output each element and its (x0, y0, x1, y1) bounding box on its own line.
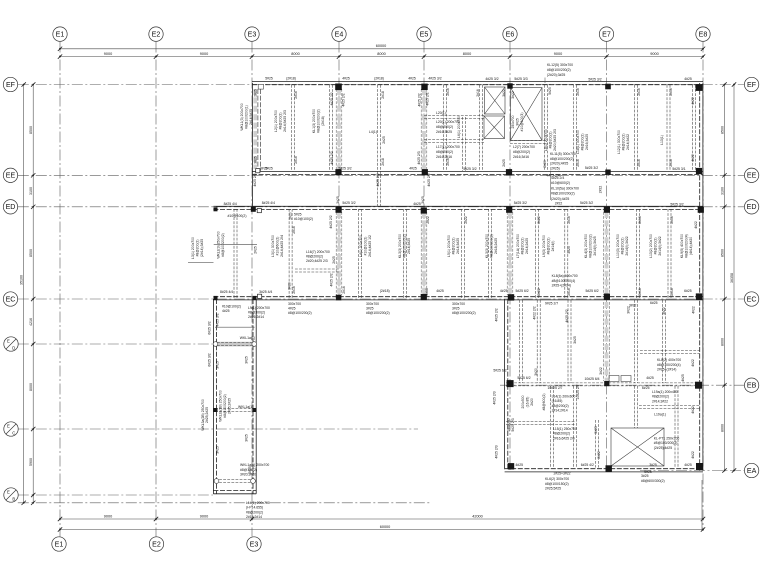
column E4/EF (335, 84, 342, 91)
label KL9(5) (680, 234, 693, 258)
label tiny v l (576, 88, 580, 96)
svg-text:3#25: 3#25 (452, 307, 460, 311)
svg-text:5#25 3/2: 5#25 3/2 (588, 78, 601, 82)
beam top band x636 (635, 85, 638, 172)
label strip L9 (248, 306, 270, 319)
svg-text:2#22: 2#22 (597, 451, 601, 459)
label block v m (534, 368, 538, 376)
label block v h (662, 307, 666, 315)
svg-text:2#18: 2#18 (381, 91, 385, 99)
beam bay E6-E7 y142 (510, 141, 546, 144)
svg-text:E: E (7, 424, 10, 429)
svg-text:KL1(3) 200x700: KL1(3) 200x700 (312, 109, 316, 133)
label tiny v b (294, 91, 298, 99)
notch box top left (258, 84, 263, 89)
grid line E1 (59, 42, 61, 537)
svg-text:#8@200(2): #8@200(2) (436, 125, 453, 129)
svg-text:4#25: 4#25 (342, 77, 350, 81)
column E6/EC (508, 294, 514, 300)
svg-text:EF: EF (747, 81, 757, 89)
svg-text:8#25 4/4: 8#25 4/4 (262, 201, 275, 205)
svg-text:#8@200(2): #8@200(2) (652, 395, 669, 399)
svg-text:2#25: 2#25 (332, 256, 336, 264)
svg-text:4#25 2/2: 4#25 2/2 (427, 173, 431, 186)
svg-text:3#16: 3#16 (425, 288, 429, 296)
svg-text:5900: 5900 (29, 458, 33, 466)
svg-text:4#25: 4#25 (222, 309, 230, 313)
column E8/EC (696, 293, 702, 299)
svg-text:KL10(5a) 300x700: KL10(5a) 300x700 (551, 186, 579, 190)
svg-text:5#25 3/2: 5#25 3/2 (514, 201, 527, 205)
svg-text:250x700: 250x700 (511, 115, 515, 128)
svg-text:5#25: 5#25 (548, 87, 552, 95)
label L16(7) (306, 250, 330, 263)
svg-text:6#25 3/2: 6#25 3/2 (207, 353, 211, 366)
svg-text:2#14;5#25 2/3: 2#14;5#25 2/3 (283, 110, 287, 132)
svg-text:3#22: 3#22 (627, 306, 631, 314)
svg-text:4#25: 4#25 (646, 376, 654, 380)
svg-text:#8@100/200(2): #8@100/200(2) (654, 441, 678, 445)
svg-text:10#25 6/4: 10#25 6/4 (584, 377, 599, 381)
svg-text:2#16: 2#16 (446, 88, 450, 96)
svg-text:8000: 8000 (377, 52, 385, 56)
label L5(1) (447, 235, 460, 257)
svg-text:(2#20);3#25: (2#20);3#25 (547, 73, 565, 77)
beam top band x668 (667, 85, 670, 172)
svg-text:#10@100(2): #10@100(2) (294, 217, 313, 221)
label strip v d (245, 356, 249, 364)
label beam L13(1) (660, 135, 664, 145)
svg-text:L4(1) 300x700: L4(1) 300x700 (359, 235, 363, 257)
beam mid band x638 (637, 209, 640, 298)
svg-text:5#25 3/3: 5#25 3/3 (514, 77, 527, 81)
label tiny v al (670, 216, 674, 224)
svg-text:2#16: 2#16 (669, 159, 673, 167)
label belowEC 3 (452, 302, 476, 315)
dimension line bottom segments (58, 514, 705, 521)
label tiny v c (330, 92, 334, 105)
label block v c (495, 445, 499, 458)
beam bay E5-E6 y141 (424, 140, 484, 143)
svg-text:4#25: 4#25 (436, 289, 444, 293)
strip floor line y327 (215, 326, 255, 328)
column E7/ED (604, 207, 610, 213)
svg-text:#8@100/200(2): #8@100/200(2) (288, 311, 312, 315)
svg-text:KL12(5) 300x700: KL12(5) 300x700 (547, 63, 573, 67)
svg-text:L2(1) 200x700: L2(1) 200x700 (274, 110, 278, 132)
label WKL2a (219, 390, 232, 422)
beam top band x546 (545, 85, 548, 172)
svg-text:2#16: 2#16 (476, 89, 480, 97)
svg-text:E3: E3 (250, 540, 259, 548)
svg-text:E6: E6 (506, 30, 515, 38)
svg-text:(2#18): (2#18) (321, 116, 325, 126)
column strip y410 R (253, 408, 257, 412)
svg-text:4#25: 4#25 (408, 77, 416, 81)
svg-text:KL8(5a) 400x700: KL8(5a) 400x700 (552, 274, 578, 278)
svg-text:E8: E8 (699, 30, 708, 38)
label tiny v i (502, 89, 506, 97)
column E5/EC (421, 294, 427, 300)
svg-text:2#16: 2#16 (637, 159, 641, 167)
svg-text:6#25 4/2: 6#25 4/2 (581, 463, 594, 467)
label WKL2(3) (217, 231, 225, 258)
label WKL1a 481 (240, 463, 269, 477)
grid bubble E1 bottom (52, 537, 66, 551)
svg-text:2#25: 2#25 (254, 246, 258, 254)
svg-text:2#25+3#22: 2#25+3#22 (553, 472, 570, 476)
svg-text:#8@200(2): #8@200(2) (513, 150, 530, 154)
svg-text:KL-PT1 250x700: KL-PT1 250x700 (654, 437, 680, 441)
svg-text:2#14;3#25: 2#14;3#25 (407, 238, 411, 254)
label mid 4#25 22b (329, 273, 333, 286)
beam ED (213, 206, 703, 209)
column E8/EB (695, 382, 702, 389)
column strip/EC L (214, 296, 218, 300)
grid bubble E7 top (599, 27, 613, 41)
svg-text:3#25: 3#25 (421, 196, 425, 204)
svg-text:3#20: 3#20 (287, 282, 291, 290)
label tiny v at (670, 288, 674, 296)
svg-text:5#25 3/2: 5#25 3/2 (463, 167, 476, 171)
column wing/ED (214, 207, 218, 211)
grid bubble EE right (744, 168, 758, 182)
svg-text:4#25: 4#25 (515, 463, 523, 467)
svg-text:WKL2a(2B) 250x700: WKL2a(2B) 250x700 (219, 390, 223, 422)
svg-text:2#22: 2#22 (426, 216, 430, 224)
beam block x636 lower (635, 386, 638, 428)
label 200x500 (521, 395, 534, 408)
svg-text:8500: 8500 (720, 126, 724, 134)
svg-text:ED: ED (747, 203, 757, 211)
label L3(1) (271, 235, 284, 257)
label beam L18(1) (576, 130, 589, 154)
svg-text:2#18: 2#18 (381, 158, 385, 166)
label tiny v p (254, 156, 258, 164)
grid bubble EB right (744, 378, 758, 392)
svg-text:#8@100/200(4): #8@100/200(4) (685, 234, 689, 258)
svg-text:WKL1a(1): WKL1a(1) (238, 405, 253, 409)
label beam L6 (457, 116, 461, 138)
svg-text:#8@200(2): #8@200(2) (621, 237, 625, 254)
svg-text:4#25 2/2: 4#25 2/2 (330, 151, 334, 164)
label KL4(3) (584, 234, 597, 258)
svg-text:5#25 2/3: 5#25 2/3 (511, 418, 515, 431)
line wing y244 (214, 243, 257, 245)
svg-text:2#20: 2#20 (530, 398, 534, 406)
beam mid band x463 (462, 209, 465, 298)
svg-text:L3(1) 300x700: L3(1) 300x700 (271, 235, 275, 257)
label KL8(2) (657, 358, 681, 372)
svg-text:4#25 2/2: 4#25 2/2 (253, 173, 257, 186)
svg-text:8#25 4/4: 8#25 4/4 (224, 202, 237, 206)
svg-text:3#22: 3#22 (599, 367, 603, 375)
beam mid band x490 (489, 209, 492, 298)
svg-text:4#22 2/2: 4#22 2/2 (532, 306, 536, 319)
label KL-PT1 (654, 437, 680, 450)
label beam L8(1) (544, 129, 557, 151)
svg-text:2#14(!);3#22: 2#14(!);3#22 (625, 236, 629, 255)
label tiny v ag (426, 216, 430, 224)
label block v d (532, 306, 536, 319)
dimension line left segments (29, 82, 35, 505)
svg-text:2#20: 2#20 (289, 212, 293, 220)
label block v g (627, 306, 631, 314)
svg-text:EB: EB (747, 382, 757, 390)
grid bubble E3 bottom (247, 537, 261, 551)
grid bubble E6 top (503, 27, 517, 41)
svg-text:(2#25): (2#25) (550, 166, 560, 170)
label mid 3#20 (287, 282, 291, 290)
label tiny v z (691, 154, 695, 162)
label tiny v an (292, 286, 296, 294)
beam EA bottom edge (505, 469, 703, 472)
svg-text:4#25 2/2: 4#25 2/2 (330, 92, 334, 105)
svg-text:2#22: 2#22 (555, 202, 563, 206)
svg-text:10#25 2/7: 10#25 2/7 (576, 384, 580, 399)
svg-text:2#25: 2#25 (502, 159, 506, 167)
svg-text:E2: E2 (152, 30, 161, 38)
svg-text:4#25 3/2: 4#25 3/2 (216, 313, 220, 326)
svg-text:L18(1) 300x700: L18(1) 300x700 (576, 130, 580, 154)
svg-text:6#25: 6#25 (684, 289, 692, 293)
svg-text:L1b(1) 200x700: L1b(1) 200x700 (246, 501, 270, 505)
column E7/EA (606, 465, 612, 471)
svg-text:4#25: 4#25 (684, 463, 692, 467)
grid bubble E/C left (4, 422, 18, 436)
wall E3 left edge (252, 83, 260, 208)
column E5/ED (421, 207, 427, 213)
svg-text:3#25: 3#25 (245, 434, 249, 442)
label belowED 3#20 (294, 212, 313, 221)
beam EE (252, 171, 703, 174)
svg-text:#10@100(2): #10@100(2) (222, 305, 241, 309)
svg-text:KL6(2) 300x700: KL6(2) 300x700 (545, 477, 569, 481)
label 250x700 in X (511, 113, 524, 132)
beam top band x575 (574, 85, 577, 172)
label tiny v a (254, 89, 258, 97)
svg-text:4#25 2/2: 4#25 2/2 (565, 309, 569, 322)
svg-text:ED: ED (6, 203, 16, 211)
label tiny v r (330, 151, 334, 164)
svg-text:8500: 8500 (29, 249, 33, 257)
svg-text:5#25 3/2: 5#25 3/2 (585, 166, 598, 170)
svg-text:2#20;5#25 2/3: 2#20;5#25 2/3 (553, 129, 557, 151)
svg-text:#8@100/200(2): #8@100/200(2) (547, 68, 571, 72)
label tiny v aq (537, 288, 541, 296)
label block v o (597, 451, 601, 459)
svg-text:(2#20);4#25: (2#20);4#25 (550, 162, 568, 166)
label tiny v aj (567, 216, 571, 224)
dimension line left outer (20, 82, 26, 505)
column E3/ED (251, 207, 256, 212)
beam E5 grey top (421, 89, 427, 169)
svg-text:4#25 2/2: 4#25 2/2 (329, 215, 333, 228)
svg-text:5#25 3/2: 5#25 3/2 (670, 203, 683, 207)
grid line EE (18, 174, 745, 176)
beam top band x331 (330, 85, 333, 172)
label block v m4 (681, 374, 685, 382)
stair rect detail 2 (621, 376, 631, 382)
svg-text:4#22: 4#22 (691, 359, 695, 367)
svg-text:4#22: 4#22 (691, 97, 695, 105)
label beam KL1(3) (312, 109, 325, 133)
svg-text:9000: 9000 (554, 52, 562, 56)
svg-text:2#25+(2#14): 2#25+(2#14) (657, 368, 676, 372)
svg-text:4#25 2/3: 4#25 2/3 (493, 391, 497, 404)
svg-text:#8@100/200(2): #8@100/200(2) (366, 311, 390, 315)
label KL12(5) block (547, 63, 573, 77)
svg-text:#8@200(2): #8@200(2) (246, 510, 263, 514)
svg-text:4#25: 4#25 (500, 289, 508, 293)
svg-text:2#16: 2#16 (292, 286, 296, 294)
svg-text:EC: EC (747, 295, 757, 303)
svg-text:2#14;4#25 2/4: 2#14;4#25 2/4 (280, 235, 284, 257)
label KL6(2) (545, 477, 569, 491)
label tiny v ap (425, 288, 429, 296)
label beam L12(1) (617, 130, 630, 154)
label L4(1) mid (359, 235, 372, 257)
label L15 block (553, 427, 577, 440)
svg-text:2#14;2#25: 2#14;2#25 (525, 238, 529, 254)
svg-text:3#20: 3#20 (534, 368, 538, 376)
svg-text:WKL1a(1): WKL1a(1) (240, 336, 255, 340)
svg-text:E5: E5 (420, 30, 429, 38)
label L9(3) (542, 235, 555, 257)
svg-text:3#25: 3#25 (567, 246, 571, 254)
label L13(2) (649, 234, 662, 258)
svg-text:4#22: 4#22 (694, 221, 698, 229)
svg-text:2#14;2#14: 2#14;2#14 (552, 409, 568, 413)
svg-text:2#16;3#16: 2#16;3#16 (513, 155, 529, 159)
label block v n (594, 426, 598, 434)
svg-text:9000: 9000 (650, 52, 658, 56)
svg-text:2#16;3#25: 2#16;3#25 (436, 130, 452, 134)
beam bay E5-E6 y117 (424, 116, 484, 119)
svg-text:L4(1): L4(1) (369, 130, 377, 134)
svg-text:2#16: 2#16 (292, 226, 296, 234)
svg-text:4#25 2/2: 4#25 2/2 (417, 93, 421, 106)
svg-text:E1: E1 (56, 30, 65, 38)
svg-text:#8@200(2): #8@200(2) (195, 239, 199, 256)
label L14 block (552, 395, 576, 413)
svg-text:KL3(3) 200x700: KL3(3) 200x700 (485, 234, 489, 258)
column E6/EF (507, 83, 512, 88)
svg-text:4#25 2/2: 4#25 2/2 (495, 308, 499, 321)
svg-text:300x700: 300x700 (288, 302, 301, 306)
svg-text:E4: E4 (335, 30, 344, 38)
svg-text:3#25: 3#25 (216, 361, 220, 369)
svg-text:3100: 3100 (29, 187, 33, 195)
svg-text:L19a(1): L19a(1) (654, 413, 666, 417)
svg-text:#8@100/150(2): #8@100/150(2) (545, 482, 569, 486)
grid line E4 (338, 42, 340, 300)
svg-text:E2: E2 (152, 540, 161, 548)
svg-text:#8@100/200(2): #8@100/200(2) (452, 311, 476, 315)
beam top band x694 (693, 85, 696, 172)
svg-text:WKL1(3) 200x700: WKL1(3) 200x700 (240, 103, 244, 130)
grid line E7 (606, 42, 608, 471)
svg-text:5#25 6/2: 5#25 6/2 (585, 289, 598, 293)
svg-text:3#22: 3#22 (511, 91, 515, 99)
column E3/EE hollow (256, 169, 260, 173)
svg-text:E: E (7, 339, 10, 344)
svg-text:8000: 8000 (291, 52, 299, 56)
dimension stub E8 bottom (701, 480, 703, 531)
corridor strip left edge (213, 299, 216, 494)
svg-text:2#25;2#25: 2#25;2#25 (205, 407, 209, 423)
grid line EB (500, 384, 744, 386)
svg-text:8000: 8000 (463, 52, 471, 56)
label tiny v k (548, 87, 552, 95)
column E7/EE (605, 170, 610, 175)
svg-text:(2#20);4#25: (2#20);4#25 (551, 197, 569, 201)
grid line EC (18, 298, 745, 300)
svg-text:200x500: 200x500 (521, 395, 525, 408)
svg-text:#10@100(2): #10@100(2) (228, 214, 247, 218)
label tiny v aw (253, 173, 257, 186)
svg-text:5#25 6/2: 5#25 6/2 (515, 289, 528, 293)
svg-text:L10(3) 200x700: L10(3) 200x700 (616, 234, 620, 258)
svg-text:L9(3) 200x700: L9(3) 200x700 (542, 235, 546, 257)
column E8/ED (698, 207, 704, 213)
svg-text:9000: 9000 (104, 514, 112, 518)
node hollow left (214, 479, 219, 484)
svg-text:2#16 2#14: 2#16 2#14 (248, 315, 264, 319)
svg-text:4#25 3/2: 4#25 3/2 (485, 77, 498, 81)
label block v e (565, 309, 569, 322)
label L17(1) block (436, 145, 460, 159)
beam top band x293 (292, 85, 295, 172)
svg-text:2#14(!): 2#14(!) (551, 241, 555, 252)
svg-text:8000: 8000 (720, 424, 724, 432)
grid bubble EC left (3, 292, 17, 306)
svg-text:#8@200(2): #8@200(2) (306, 255, 323, 259)
label L20(1) block (436, 120, 460, 134)
column E6/EA (508, 463, 514, 469)
svg-text:2#16;3#25: 2#16;3#25 (585, 134, 589, 150)
svg-text:4#25: 4#25 (684, 77, 692, 81)
svg-text:#8@600/300(2): #8@600/300(2) (641, 479, 665, 483)
label mid 4#25 22 (329, 215, 333, 228)
label tiny v aa (336, 196, 340, 204)
svg-text:KL4(3) 200x700: KL4(3) 200x700 (584, 234, 588, 258)
label tiny v j (511, 91, 515, 99)
grid line ED (18, 206, 745, 208)
svg-text:42000: 42000 (472, 514, 483, 518)
svg-text:4#25 2/2: 4#25 2/2 (329, 273, 333, 286)
svg-text:L5(1) 200x700: L5(1) 200x700 (447, 235, 451, 257)
dimension line top total (58, 44, 705, 51)
svg-text:L14(1) 200x600: L14(1) 200x600 (552, 395, 576, 399)
label strip v e (245, 434, 249, 442)
label tiny v ah (464, 216, 468, 224)
label L10(3) (616, 234, 629, 258)
column E4/EE (335, 169, 341, 175)
beam block x676 lower (675, 386, 678, 468)
corridor strip right edge (253, 299, 256, 494)
dimension line top segments (58, 52, 705, 59)
svg-text:(2#18): (2#18) (286, 77, 296, 81)
svg-text:8500: 8500 (720, 249, 724, 257)
svg-text:3#25: 3#25 (594, 426, 598, 434)
node hollow y344 R (252, 342, 257, 347)
grid line E/D left (18, 343, 214, 345)
svg-text:2#25: 2#25 (382, 136, 386, 144)
svg-text:2#16: 2#16 (669, 88, 673, 96)
grid bubble E2 top (149, 27, 163, 41)
svg-text:5#25 3/2: 5#25 3/2 (338, 167, 351, 171)
